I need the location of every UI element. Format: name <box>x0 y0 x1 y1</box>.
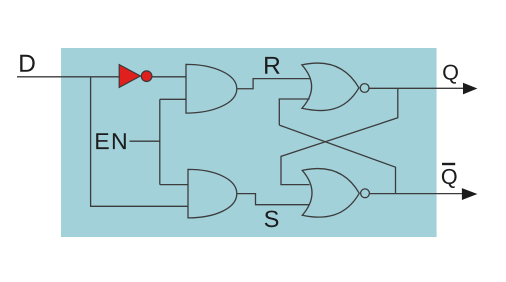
wire EN stub <box>130 140 160 142</box>
inverter U1 triangle <box>119 65 140 88</box>
NOR U5 output bubble <box>361 189 370 198</box>
label Q-bar <box>442 169 457 188</box>
wire feedback diagonal Q to U5 upper input <box>281 88 398 184</box>
arrowhead Q output <box>463 83 477 95</box>
AND gate U2 (top, D-bar AND EN) <box>186 64 237 113</box>
wire EN to AND2 upper input <box>160 184 188 186</box>
label S <box>265 211 279 228</box>
wire Q output <box>370 87 471 89</box>
wire S (AND2 out to NOR2 lower input) <box>237 194 310 205</box>
wire EN vertical <box>159 99 161 184</box>
wire EN to AND1 lower input <box>160 98 186 100</box>
arrowhead Q-bar output <box>462 188 478 200</box>
wire R (AND1 out to NOR1 upper input) <box>237 79 310 89</box>
wire inverter output to AND1 <box>152 76 186 78</box>
NOR gate U4 (top, R input) <box>302 63 359 111</box>
wire D branch down to AND2 lower input <box>91 77 188 207</box>
label Q <box>443 65 458 84</box>
wire D input <box>17 76 119 78</box>
label EN <box>96 133 126 149</box>
NOR U4 output bubble <box>360 84 369 93</box>
label D <box>20 55 35 72</box>
AND gate U3 (bottom, EN AND D) <box>188 169 237 218</box>
blue panel <box>61 48 437 237</box>
NOR gate U5 (bottom, S input) <box>302 169 359 218</box>
label R <box>265 57 280 74</box>
wire Qbar output <box>370 193 470 195</box>
wire NOR U4 lower input (feedback from Q-bar) <box>279 99 309 125</box>
overline of Q-bar <box>442 163 455 165</box>
wire feedback diagonal Q-bar to U4 <box>279 125 395 194</box>
inverter U1 output bubble <box>141 71 152 82</box>
